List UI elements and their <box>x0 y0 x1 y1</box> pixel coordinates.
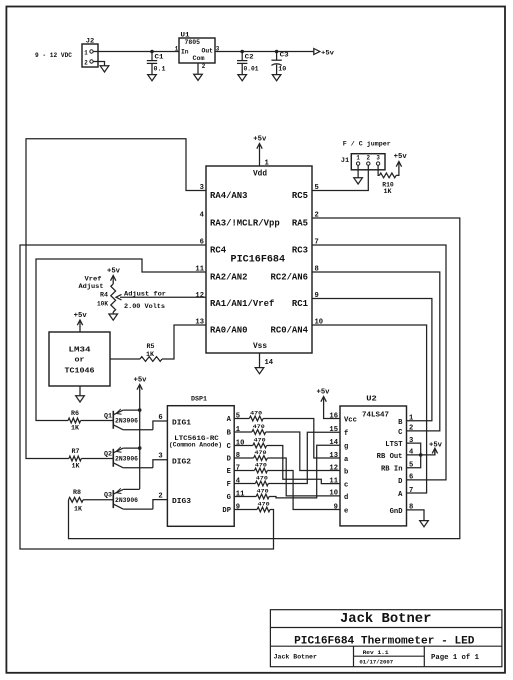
svg-text:10K: 10K <box>97 301 108 308</box>
svg-text:8: 8 <box>236 452 240 460</box>
svg-text:Out: Out <box>202 48 214 55</box>
svg-text:1: 1 <box>356 155 360 162</box>
capacitor C1 <box>147 52 166 75</box>
svg-text:RB In: RB In <box>381 466 403 474</box>
resistor 470 segment D <box>254 449 268 460</box>
net +5v Vdd <box>253 136 267 151</box>
node C1 top <box>150 50 154 54</box>
label Adjust for 2.00 Volts <box>124 291 166 311</box>
svg-text:U2: U2 <box>366 396 377 404</box>
svg-text:Vref: Vref <box>85 276 102 283</box>
svg-text:e: e <box>344 508 348 516</box>
wire J1 pin3 to R10 <box>378 165 379 175</box>
DSP1 segment letters <box>222 416 231 515</box>
svg-text:C: C <box>227 443 231 451</box>
ground C3 <box>272 75 281 81</box>
wire Q2 collector to DIG2 <box>153 460 168 468</box>
svg-text:DIG3: DIG3 <box>172 498 192 506</box>
svg-text:1: 1 <box>265 160 269 168</box>
wire RA5 pin2 to R8 <box>69 218 460 539</box>
svg-text:or: or <box>75 357 85 365</box>
svg-text:9: 9 <box>334 503 338 511</box>
node Q1 emitter <box>138 408 142 412</box>
svg-text:Q1: Q1 <box>104 412 112 419</box>
svg-text:+5v: +5v <box>321 49 334 56</box>
svg-text:Q2: Q2 <box>104 450 112 457</box>
svg-text:10: 10 <box>278 66 286 73</box>
title text Jack Botner <box>340 611 432 627</box>
ground J2 <box>100 66 109 72</box>
wire seg F to U2 f <box>268 432 340 483</box>
svg-text:RA4/AN3: RA4/AN3 <box>210 191 248 201</box>
wire Vdd <box>260 150 269 168</box>
wire Q1 collector to DIG1 <box>153 421 168 430</box>
wire RC3 pin7 to U2 D <box>312 245 446 480</box>
wire seg G to U2 g <box>269 445 340 498</box>
svg-text:2: 2 <box>84 60 88 67</box>
svg-text:11: 11 <box>236 490 245 498</box>
node C3 top <box>275 50 279 54</box>
resistor 470 segment C <box>253 437 267 448</box>
wire RC1 pin9 to U2 B <box>312 299 432 421</box>
decoder U2 74LS47 <box>340 396 407 526</box>
svg-text:2: 2 <box>202 63 206 70</box>
svg-text:C1: C1 <box>155 53 164 60</box>
svg-text:14: 14 <box>329 439 338 447</box>
wire RC0 pin10 to U2 A <box>312 325 427 493</box>
svg-text:10: 10 <box>236 439 245 447</box>
svg-text:+5v: +5v <box>107 268 121 276</box>
wire DSP1 E stub <box>234 464 254 472</box>
wire U1 Out to +5v <box>215 51 314 53</box>
svg-text:DIG2: DIG2 <box>172 458 192 466</box>
wire DSP1 F stub <box>234 477 255 485</box>
title text PIC16F684 Thermometer - LED <box>294 635 475 647</box>
svg-text:Page 1 of 1: Page 1 of 1 <box>431 654 479 662</box>
svg-text:2N3906: 2N3906 <box>115 418 138 425</box>
svg-text:Vdd: Vdd <box>253 170 267 179</box>
svg-text:RA1/AN1/Vref: RA1/AN1/Vref <box>210 299 274 309</box>
wire Q3 collector to DIG3 <box>153 500 168 510</box>
svg-text:1: 1 <box>84 50 88 57</box>
svg-text:C: C <box>398 429 402 437</box>
svg-text:RA0/AN0: RA0/AN0 <box>210 325 248 335</box>
net +5v LM34 <box>74 312 88 327</box>
wire seg A to U2 a <box>263 419 340 459</box>
potentiometer R4 10K <box>97 282 116 315</box>
wire J2 pin1 to U1 In <box>93 51 179 53</box>
svg-text:R8: R8 <box>73 489 81 496</box>
wire seg D to U2 d <box>267 458 340 496</box>
wire DSP1 DP stub <box>234 503 257 511</box>
resistor R10 <box>379 173 396 195</box>
title Page 1 of 1 <box>431 654 479 662</box>
svg-text:1K: 1K <box>72 463 80 470</box>
wire +5v to LM34 <box>79 326 81 332</box>
svg-text:RC1: RC1 <box>292 299 309 309</box>
ground Vss <box>255 368 264 374</box>
net +5v U2 Vcc <box>317 389 331 403</box>
wire R6 to Q1 base <box>81 420 113 422</box>
label Vref Adjust <box>79 276 104 291</box>
title block frame <box>270 610 502 667</box>
svg-text:470: 470 <box>250 410 263 417</box>
title date 01/17/2007 <box>359 658 393 665</box>
svg-text:0.1: 0.1 <box>154 66 166 73</box>
wire R10 to +5v <box>396 168 399 176</box>
connector J1 <box>341 154 385 170</box>
svg-text:LTST: LTST <box>385 441 402 449</box>
wire seg B to U2 b <box>266 432 340 471</box>
resistor 470 segment A <box>249 410 263 421</box>
svg-text:+5v: +5v <box>134 377 148 385</box>
node C2 top <box>240 50 244 54</box>
svg-text:Adjust for: Adjust for <box>124 291 166 298</box>
svg-text:7805: 7805 <box>185 39 201 46</box>
svg-text:RC0/AN4: RC0/AN4 <box>271 325 309 335</box>
svg-text:DP: DP <box>222 507 231 515</box>
svg-text:f: f <box>344 430 348 438</box>
svg-text:PIC16F684: PIC16F684 <box>231 255 286 266</box>
svg-text:d: d <box>344 494 348 502</box>
wire DSP1 C stub <box>234 439 253 447</box>
U2 right pin labels <box>377 415 414 516</box>
svg-text:10: 10 <box>329 490 338 498</box>
wire seg E to U2 e <box>267 471 340 510</box>
svg-text:Vss: Vss <box>253 342 267 351</box>
wire LM34 to ground <box>79 386 81 396</box>
ground C2 <box>238 75 247 81</box>
svg-text:1: 1 <box>236 426 240 434</box>
svg-text:DIG1: DIG1 <box>172 420 192 428</box>
resistor R5 <box>140 343 162 361</box>
microcontroller U3 PIC16F684 <box>206 166 312 353</box>
svg-text:G: G <box>227 494 231 502</box>
PIC right pin names <box>271 191 309 335</box>
node Q2 emitter <box>138 446 142 450</box>
wire +5v rail <box>139 391 141 490</box>
svg-text:2.00 Volts: 2.00 Volts <box>124 303 165 310</box>
svg-text:+5v: +5v <box>253 136 267 144</box>
ground C1 <box>148 75 157 81</box>
resistor 470 segment E <box>255 462 268 473</box>
wire RA2/AN2 pin11 to R6 <box>36 259 206 421</box>
title Rev 1.1 <box>363 649 390 656</box>
svg-text:13: 13 <box>329 452 338 460</box>
svg-text:b: b <box>344 469 348 477</box>
svg-text:14: 14 <box>265 359 274 367</box>
svg-text:7: 7 <box>236 464 240 472</box>
svg-text:C2: C2 <box>245 53 254 60</box>
svg-text:2: 2 <box>367 155 371 162</box>
svg-text:1K: 1K <box>146 351 154 358</box>
net +5v R10 <box>394 153 408 168</box>
capacitor C3 <box>271 51 289 74</box>
net +5v RB Out <box>429 441 443 454</box>
svg-text:RC2/AN6: RC2/AN6 <box>271 272 309 282</box>
svg-text:R5: R5 <box>147 343 155 350</box>
wire DSP1 A stub <box>234 412 249 420</box>
svg-text:RC4: RC4 <box>210 245 227 255</box>
wire RC4 pin6 to DP resistor <box>20 245 274 549</box>
resistor R6 <box>68 410 81 432</box>
svg-text:D: D <box>227 456 231 464</box>
sensor U4 LM34/TC1046 <box>49 332 110 386</box>
svg-text:C3: C3 <box>280 51 289 58</box>
svg-text:470: 470 <box>254 437 267 444</box>
svg-text:Rev 1.1: Rev 1.1 <box>363 649 390 656</box>
svg-text:DSP1: DSP1 <box>191 396 207 403</box>
resistor 470 segment DP <box>257 501 270 512</box>
svg-text:RA2/AN2: RA2/AN2 <box>210 272 248 282</box>
svg-text:9 - 12 VDC: 9 - 12 VDC <box>35 52 72 59</box>
wire U1 Com to ground <box>197 63 199 74</box>
regulator U1 7805 <box>175 32 220 71</box>
svg-text:470: 470 <box>256 475 269 482</box>
ground U1 <box>194 74 203 80</box>
svg-text:470: 470 <box>255 449 268 456</box>
net +5v R4 <box>107 268 121 283</box>
wire RA1/Vref pin12 to R4 wiper <box>116 294 206 300</box>
svg-text:R6: R6 <box>71 410 79 417</box>
wire RA0/AN0 pin13 to R5 <box>162 325 206 359</box>
svg-text:12: 12 <box>195 292 204 300</box>
U2 left pin labels <box>329 412 357 515</box>
svg-text:5: 5 <box>236 412 240 420</box>
transistor Q1 2N3906 <box>104 409 153 430</box>
svg-text:(Common Anode): (Common Anode) <box>169 442 222 449</box>
svg-text:4: 4 <box>200 212 204 220</box>
wire RC2 pin8 to U2 C <box>312 272 440 431</box>
net +5v power out <box>314 49 334 57</box>
svg-text:15: 15 <box>329 426 338 434</box>
resistor 470 segment G <box>256 488 269 499</box>
svg-text:GnD: GnD <box>390 508 403 516</box>
wire U2 RB Out to +5v <box>407 451 435 455</box>
node RB Out junction <box>419 453 423 457</box>
svg-text:1K: 1K <box>74 506 82 513</box>
capacitor C2 <box>237 52 259 75</box>
svg-text:PIC16F684 Thermometer - LED: PIC16F684 Thermometer - LED <box>294 635 475 647</box>
svg-text:J1: J1 <box>341 157 350 164</box>
ground R4 <box>109 314 118 320</box>
wire DSP1 G stub <box>234 490 256 498</box>
wire R5 to LM34 <box>110 358 140 360</box>
svg-text:R7: R7 <box>72 448 80 455</box>
svg-text:Jack Botner: Jack Botner <box>340 611 432 627</box>
svg-text:g: g <box>344 443 348 451</box>
wire J1 pin1 to ground <box>357 165 359 178</box>
svg-text:6: 6 <box>158 414 162 422</box>
svg-text:2N3906: 2N3906 <box>115 497 138 504</box>
wire DSP1 D stub <box>234 452 253 460</box>
svg-text:0.01: 0.01 <box>244 66 259 73</box>
svg-text:RB Out: RB Out <box>377 453 403 461</box>
svg-text:E: E <box>227 468 231 476</box>
svg-text:+5v: +5v <box>394 153 408 161</box>
svg-text:In: In <box>181 49 189 56</box>
ground U2 <box>420 521 429 527</box>
svg-text:9: 9 <box>236 503 240 511</box>
svg-text:470: 470 <box>258 501 271 508</box>
svg-text:RA3/!MCLR/Vpp: RA3/!MCLR/Vpp <box>210 218 280 228</box>
wire J2 pin2 to ground <box>93 62 104 66</box>
wire J1 pin2 to RC5 <box>312 165 368 190</box>
connector J2 <box>82 38 98 68</box>
transistor Q3 2N3906 <box>104 488 153 509</box>
svg-text:U1: U1 <box>181 32 190 39</box>
PIC right pin numbers <box>315 184 324 327</box>
svg-text:01/17/2007: 01/17/2007 <box>359 658 393 665</box>
svg-text:2N3906: 2N3906 <box>115 456 138 463</box>
ground LM34 <box>76 396 85 402</box>
net +5v rail <box>134 377 148 392</box>
svg-text:J2: J2 <box>86 38 95 45</box>
DSP1 digit pin labels <box>158 414 191 506</box>
svg-text:RA5: RA5 <box>292 218 308 228</box>
wire U2 Vcc <box>324 403 340 419</box>
svg-text:3: 3 <box>376 155 380 162</box>
wire DSP1 B stub <box>234 426 252 434</box>
svg-text:+5v: +5v <box>429 441 443 449</box>
wire R8 to Q3 base <box>83 499 113 501</box>
svg-text:3: 3 <box>158 453 162 461</box>
wire U2 RB In <box>407 455 421 468</box>
label 9-12 VDC <box>35 52 72 59</box>
svg-text:c: c <box>344 482 348 490</box>
resistor 470 segment B <box>252 423 266 434</box>
svg-text:11: 11 <box>329 477 338 485</box>
wire seg C to U2 c <box>267 446 340 484</box>
resistor R7 <box>69 448 81 470</box>
svg-text:F: F <box>227 481 231 489</box>
wire U2 LTST <box>407 443 421 455</box>
svg-text:+5v: +5v <box>317 389 331 397</box>
title author Jack Botner <box>274 653 317 660</box>
ground J1 <box>354 178 363 184</box>
svg-text:LM34: LM34 <box>69 347 92 355</box>
svg-text:1K: 1K <box>71 425 79 432</box>
svg-text:TC1046: TC1046 <box>65 368 96 376</box>
resistor 470 segment F <box>255 475 268 486</box>
svg-text:R4: R4 <box>100 292 108 299</box>
svg-text:+5v: +5v <box>74 312 88 320</box>
svg-text:Com: Com <box>193 55 205 62</box>
svg-text:F / C jumper: F / C jumper <box>343 141 391 148</box>
display DSP1 LTC561G-RC <box>167 396 234 527</box>
wire R7 to Q2 base <box>81 458 113 460</box>
svg-text:RC3: RC3 <box>292 245 308 255</box>
svg-text:1K: 1K <box>384 188 392 195</box>
svg-text:Adjust: Adjust <box>79 283 104 290</box>
svg-text:RC5: RC5 <box>292 191 308 201</box>
wire Vss to ground <box>260 353 274 368</box>
transistor Q2 2N3906 <box>104 447 153 468</box>
svg-text:2: 2 <box>158 492 162 500</box>
svg-text:Vcc: Vcc <box>344 417 357 425</box>
svg-text:Q3: Q3 <box>104 492 112 499</box>
PIC left pin names <box>210 191 280 335</box>
svg-text:Jack Botner: Jack Botner <box>274 653 317 660</box>
svg-text:74LS47: 74LS47 <box>362 412 389 420</box>
svg-text:4: 4 <box>236 477 240 485</box>
svg-text:12: 12 <box>329 464 338 472</box>
svg-text:1: 1 <box>175 45 179 52</box>
label F / C jumper <box>343 141 391 148</box>
svg-text:D: D <box>398 478 402 486</box>
wire U2 GND to ground <box>407 510 425 521</box>
PIC left pin numbers <box>195 184 204 327</box>
svg-text:470: 470 <box>255 462 268 469</box>
wire RA4/AN3 pin3 to R7 <box>26 139 206 459</box>
resistor R8 <box>69 489 84 513</box>
svg-text:470: 470 <box>253 423 266 430</box>
svg-text:470: 470 <box>257 488 270 495</box>
